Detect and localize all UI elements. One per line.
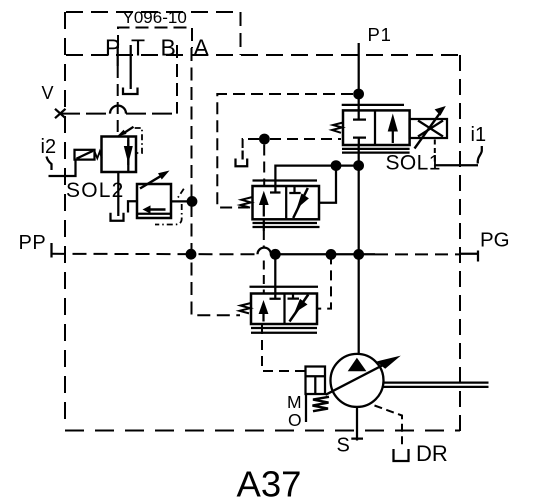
valve bottom right square diagonal arrow <box>290 295 309 322</box>
wire reducing valve left port drain <box>128 201 137 212</box>
svg-text:SOL1: SOL1 <box>386 152 441 175</box>
plug symbol at V port <box>55 109 66 118</box>
pump variable displacement arrow <box>326 356 401 395</box>
solenoid SOL1 X <box>418 121 443 137</box>
pump triangle <box>348 358 367 371</box>
valve SOL1 bars below <box>342 149 410 153</box>
pump control rod double line <box>384 383 489 387</box>
svg-text:B: B <box>161 35 176 61</box>
wire P1 vertical upper <box>358 43 360 120</box>
actuator piston line <box>306 376 326 394</box>
valve center divider <box>285 186 287 219</box>
wire V gauge line with hop over P pilot line <box>60 113 177 115</box>
port PG stub <box>460 251 478 262</box>
node junction feedback <box>331 160 342 171</box>
connector i1 hook <box>478 146 482 164</box>
wire P1 vertical lower (valve to pump) <box>358 145 360 354</box>
tank DR <box>394 449 409 461</box>
svg-text:PP: PP <box>19 232 47 254</box>
pilot dash-dot enclosure around reducing valve <box>155 189 184 225</box>
actuation arrow into SOL2 <box>117 127 134 137</box>
enclosure Y096-10 box top edge <box>66 11 241 13</box>
valve SOL2 internal seat line <box>127 137 129 173</box>
wire PG dashed right part <box>375 253 460 255</box>
tank pilot drain center <box>236 159 248 167</box>
svg-text:A37: A37 <box>237 464 302 499</box>
valve SOL2 internal down arrow <box>124 140 133 165</box>
wire reducing valve right port to A line <box>171 200 188 202</box>
valve center body <box>253 186 320 219</box>
svg-text:PG: PG <box>480 229 510 252</box>
node junction reducing valve / A line <box>187 196 198 207</box>
valve reducing internal bottom line <box>137 213 171 215</box>
svg-text:M: M <box>287 392 302 412</box>
wire P pilot line dashed segment <box>117 66 119 136</box>
wire P pilot line down to SOL2 valve <box>117 48 119 66</box>
svg-text:SOL2: SOL2 <box>66 179 125 202</box>
solenoid SOL1 box <box>410 119 447 138</box>
wire center valve top port to P1 <box>275 166 358 186</box>
svg-text:DR: DR <box>416 441 448 466</box>
wire T line down to tank <box>130 45 132 89</box>
valve bottom right square blocked stub <box>288 295 300 299</box>
svg-text:O: O <box>288 410 302 430</box>
valve center left square blocked port <box>270 186 281 193</box>
valve SOL1 bar above <box>342 104 404 106</box>
valve center bars below <box>253 223 320 227</box>
wire center valve bottom port down to hop <box>263 219 265 231</box>
connector i2 hook <box>47 157 52 171</box>
wire i2 to solenoid SOL2 <box>49 160 76 176</box>
svg-text:Y096-10: Y096-10 <box>123 8 187 27</box>
svg-text:A: A <box>194 35 210 61</box>
svg-text:i2: i2 <box>41 136 57 158</box>
solenoid SOL2 coil slash <box>77 151 94 159</box>
valve SOL1 right square up arrow <box>388 114 398 144</box>
solenoid SOL2 coil box <box>75 150 95 160</box>
pump circle <box>331 354 384 407</box>
svg-text:T: T <box>131 35 145 61</box>
node junction drop to bottom valve <box>270 249 281 260</box>
valve SOL2 body <box>102 137 137 173</box>
valve bottom bars below <box>251 328 317 333</box>
spring SOL1 left <box>332 123 343 133</box>
pilot line node to drain tank corner <box>243 139 259 148</box>
valve reducing internal left arrow <box>143 205 166 213</box>
adjustment arrow on SOL1 solenoid <box>415 106 446 149</box>
node junction on P1 line top <box>353 89 364 100</box>
pilot case drain to DR <box>375 406 403 449</box>
svg-text:V: V <box>42 83 54 103</box>
valve center proportional: bar above <box>253 179 318 181</box>
valve SOL1 left square blocked top port <box>353 118 366 120</box>
valve center right square diagonal arrow <box>293 188 309 218</box>
valve bottom left square up arrow <box>259 300 269 322</box>
enclosure Y096-10 box right edge <box>240 12 242 55</box>
enclosure main outer box left edge <box>64 12 66 428</box>
port PP tick <box>50 243 52 258</box>
valve SOL1 divider <box>374 110 376 145</box>
valve bottom body <box>251 294 317 325</box>
valve center left square up arrow <box>259 191 269 217</box>
enclosure main outer box top edge (shared with Y096-10 bottom) <box>66 54 460 56</box>
wire bottom valve drain port to control cylinder <box>262 324 306 371</box>
wire PP to PG pilot line dashed left part <box>52 253 258 256</box>
wire pump suction S <box>351 407 363 441</box>
svg-text:P1: P1 <box>368 24 392 45</box>
wire pressure line with hop over valve pilot <box>258 248 376 255</box>
actuator rod line down <box>305 394 307 422</box>
node junction drop to bottom valve right port <box>326 249 337 260</box>
wire dashed continuation to bottom valve <box>263 231 265 294</box>
wire B pilot line down <box>176 45 178 114</box>
wire from junction down to bottom valve right port <box>317 254 331 308</box>
enclosure main outer box right edge <box>459 55 461 431</box>
svg-text:i1: i1 <box>471 124 487 146</box>
actuator control cylinder body <box>306 367 326 395</box>
wire drop from junction into bottom valve blocked port <box>270 254 281 298</box>
wire SOL2 drain to tank <box>117 172 119 216</box>
wire feedback into center valve right port <box>320 166 337 203</box>
node junction on P1 line <box>353 160 364 171</box>
pilot dash-dot loop SOL2 <box>135 128 142 153</box>
spring center valve left <box>241 197 253 208</box>
valve bottom bar above <box>250 286 319 288</box>
wire tank stub <box>241 151 243 160</box>
valve bottom divider <box>283 294 285 325</box>
pilot line junction node <box>259 134 270 145</box>
valve SOL1 left square blocked bottom port <box>353 138 366 145</box>
wire SOL1 solenoid to i1 <box>435 140 478 166</box>
tank SOL2 drain <box>111 213 124 221</box>
valve reducing body <box>137 184 171 218</box>
pilot line node down to center valve <box>263 145 265 187</box>
wire A pilot line down to bottom valve spring <box>192 48 241 315</box>
spring between solenoid and SOL2 valve <box>95 152 102 159</box>
tank under port T <box>123 88 138 95</box>
pilot line node to SOL1 spring side <box>270 138 341 140</box>
svg-text:S: S <box>337 435 350 457</box>
valve center right square blocked stub <box>289 187 300 193</box>
valve SOL1 body <box>343 110 410 145</box>
node junction P1 crossing <box>353 249 364 260</box>
spring under control cylinder <box>313 397 330 411</box>
node junction A-line / PP line <box>186 249 197 260</box>
adjustment arrow on reducing valve <box>140 171 170 189</box>
node ports sub-box (dashed) inside Y096-10 <box>118 28 192 49</box>
spring bottom valve left <box>240 303 252 313</box>
enclosure main outer box bottom edge <box>65 430 460 432</box>
pilot line from P1 junction around left (dashed box) <box>217 94 353 208</box>
